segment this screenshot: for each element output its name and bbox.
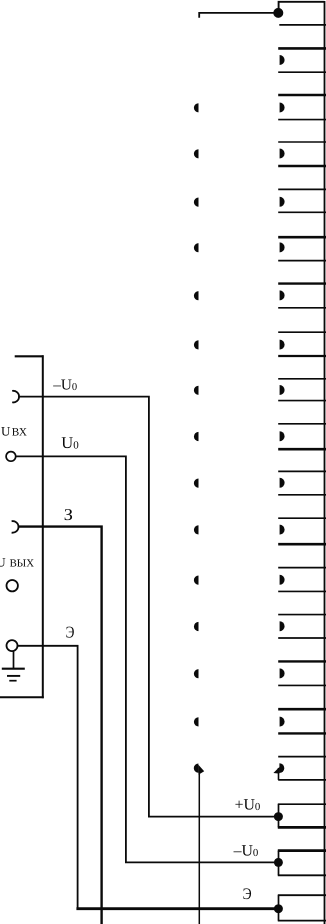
wire Э : terminal to Э feed dot (thick) xyxy=(18,646,78,909)
row 6 lower line xyxy=(278,307,326,309)
wire U0 : terminal to -U0 feed dot xyxy=(16,456,279,862)
ground xyxy=(2,651,25,681)
row 9 node half-dot right xyxy=(280,431,285,441)
row 12 node half-dot on boundary xyxy=(194,576,199,585)
row 7 upper line xyxy=(278,331,326,333)
row 10 node half-dot right xyxy=(280,478,285,488)
row 14 upper line xyxy=(278,660,326,662)
row 3 node half-dot on boundary xyxy=(194,149,199,158)
row 12 upper line xyxy=(278,567,326,569)
row 4 lower line xyxy=(278,211,326,213)
terminal circle X2 (U0) xyxy=(6,452,16,462)
row 15 lower line xyxy=(278,732,326,734)
row 11 node half-dot right xyxy=(280,525,285,535)
feed bracket Э xyxy=(278,895,326,920)
amplifier box bottom edge xyxy=(0,696,44,698)
row 14 node half-dot right xyxy=(280,668,285,678)
row 8 node half-dot on boundary xyxy=(194,386,199,395)
right vertical bus xyxy=(324,1,326,924)
row 10 upper line xyxy=(278,470,326,472)
terminal socket X1 (-U0 input) xyxy=(12,391,19,403)
terminal socket X3 (З) xyxy=(12,521,19,533)
junction dot Э xyxy=(274,904,283,913)
row 5 node half-dot on boundary xyxy=(194,243,199,252)
row 12 lower line xyxy=(278,590,326,592)
row 8 lower line xyxy=(278,400,326,402)
wire Э bottom run xyxy=(76,907,277,910)
junction dot row 0 xyxy=(273,8,283,18)
row 14 lower line xyxy=(278,684,326,686)
row 6 node half-dot right xyxy=(280,290,285,300)
row 16 lower line xyxy=(278,779,326,781)
row 10 node half-dot on boundary xyxy=(194,479,199,488)
row 2 node half-dot right xyxy=(280,103,285,113)
wire -U0 : terminal to +U0 feed dot xyxy=(18,397,278,817)
row 8 node half-dot right xyxy=(280,385,285,395)
row 4 node half-dot right xyxy=(280,197,285,207)
row 8 upper line xyxy=(278,378,326,380)
row 2 lower line xyxy=(278,119,326,121)
svg-text:Э: Э xyxy=(243,886,252,903)
row 13 lower line xyxy=(278,637,326,639)
row 3 upper line xyxy=(278,141,326,143)
wire top feed (row 0) with boundary tick xyxy=(199,13,278,18)
row 7 node half-dot right xyxy=(280,340,285,350)
svg-text:UВХ: UВХ xyxy=(1,423,27,438)
row 9 lower line xyxy=(278,448,326,451)
row 5 upper line xyxy=(278,236,326,239)
row 2 node half-dot on boundary xyxy=(194,103,199,112)
terminal circle X5 (Э) xyxy=(7,640,18,651)
svg-text:З: З xyxy=(64,505,73,524)
terminal circle X4 (Uвых, unconnected) xyxy=(7,580,18,591)
svg-text:Э: Э xyxy=(66,623,75,642)
row 2 upper line xyxy=(278,94,326,96)
row 15 node half-dot right xyxy=(280,717,285,727)
row 13 node half-dot on boundary xyxy=(194,622,199,631)
row 6 upper line xyxy=(278,282,326,284)
row 3 lower line xyxy=(278,165,326,168)
row 13 upper line xyxy=(278,614,326,616)
row 4 node half-dot on boundary xyxy=(194,198,199,207)
row 13 node half-dot right xyxy=(280,621,285,631)
row 16 upper line xyxy=(278,756,326,758)
row 16 node half-dot on boundary with tail xyxy=(194,764,204,775)
row 0 lower line xyxy=(279,24,326,26)
row 7 lower line xyxy=(278,355,326,357)
junction dot -U0 xyxy=(274,858,283,867)
feed bracket -U0 xyxy=(278,851,326,876)
row 4 upper line xyxy=(278,188,326,190)
row 11 upper line xyxy=(278,517,326,519)
row 3 node half-dot right xyxy=(280,149,285,159)
wire З : terminal down off bottom edge xyxy=(18,527,102,924)
feed bracket +U0 xyxy=(278,804,326,827)
row 11 node half-dot on boundary xyxy=(194,525,199,534)
row 1 node half-dot right xyxy=(280,55,285,65)
junction dot +U0 xyxy=(274,812,283,821)
row 10 lower line xyxy=(278,494,326,496)
row 15 upper line xyxy=(278,708,326,711)
row 7 node half-dot on boundary xyxy=(194,340,199,349)
row 11 lower line xyxy=(278,543,326,546)
row 9 upper line xyxy=(278,423,326,425)
row 15 node half-dot on boundary xyxy=(194,717,199,726)
amplifier box right edge xyxy=(42,355,44,698)
row 14 node half-dot on boundary xyxy=(194,669,199,678)
row 1 lower line xyxy=(278,71,326,73)
row 6 node half-dot on boundary xyxy=(194,291,199,300)
row 5 node half-dot right xyxy=(280,242,285,252)
row 5 lower line xyxy=(278,260,326,262)
chip boundary line solid lower part xyxy=(198,774,200,924)
row 1 upper line xyxy=(278,47,326,50)
svg-text:UВЫХ: UВЫХ xyxy=(0,554,34,569)
top bracket row 0 xyxy=(279,2,325,14)
row 16 node half-dot right with stub xyxy=(273,763,284,773)
row 9 node half-dot on boundary xyxy=(194,432,199,441)
row 12 node half-dot right xyxy=(280,575,285,585)
amplifier box top edge xyxy=(15,355,44,357)
